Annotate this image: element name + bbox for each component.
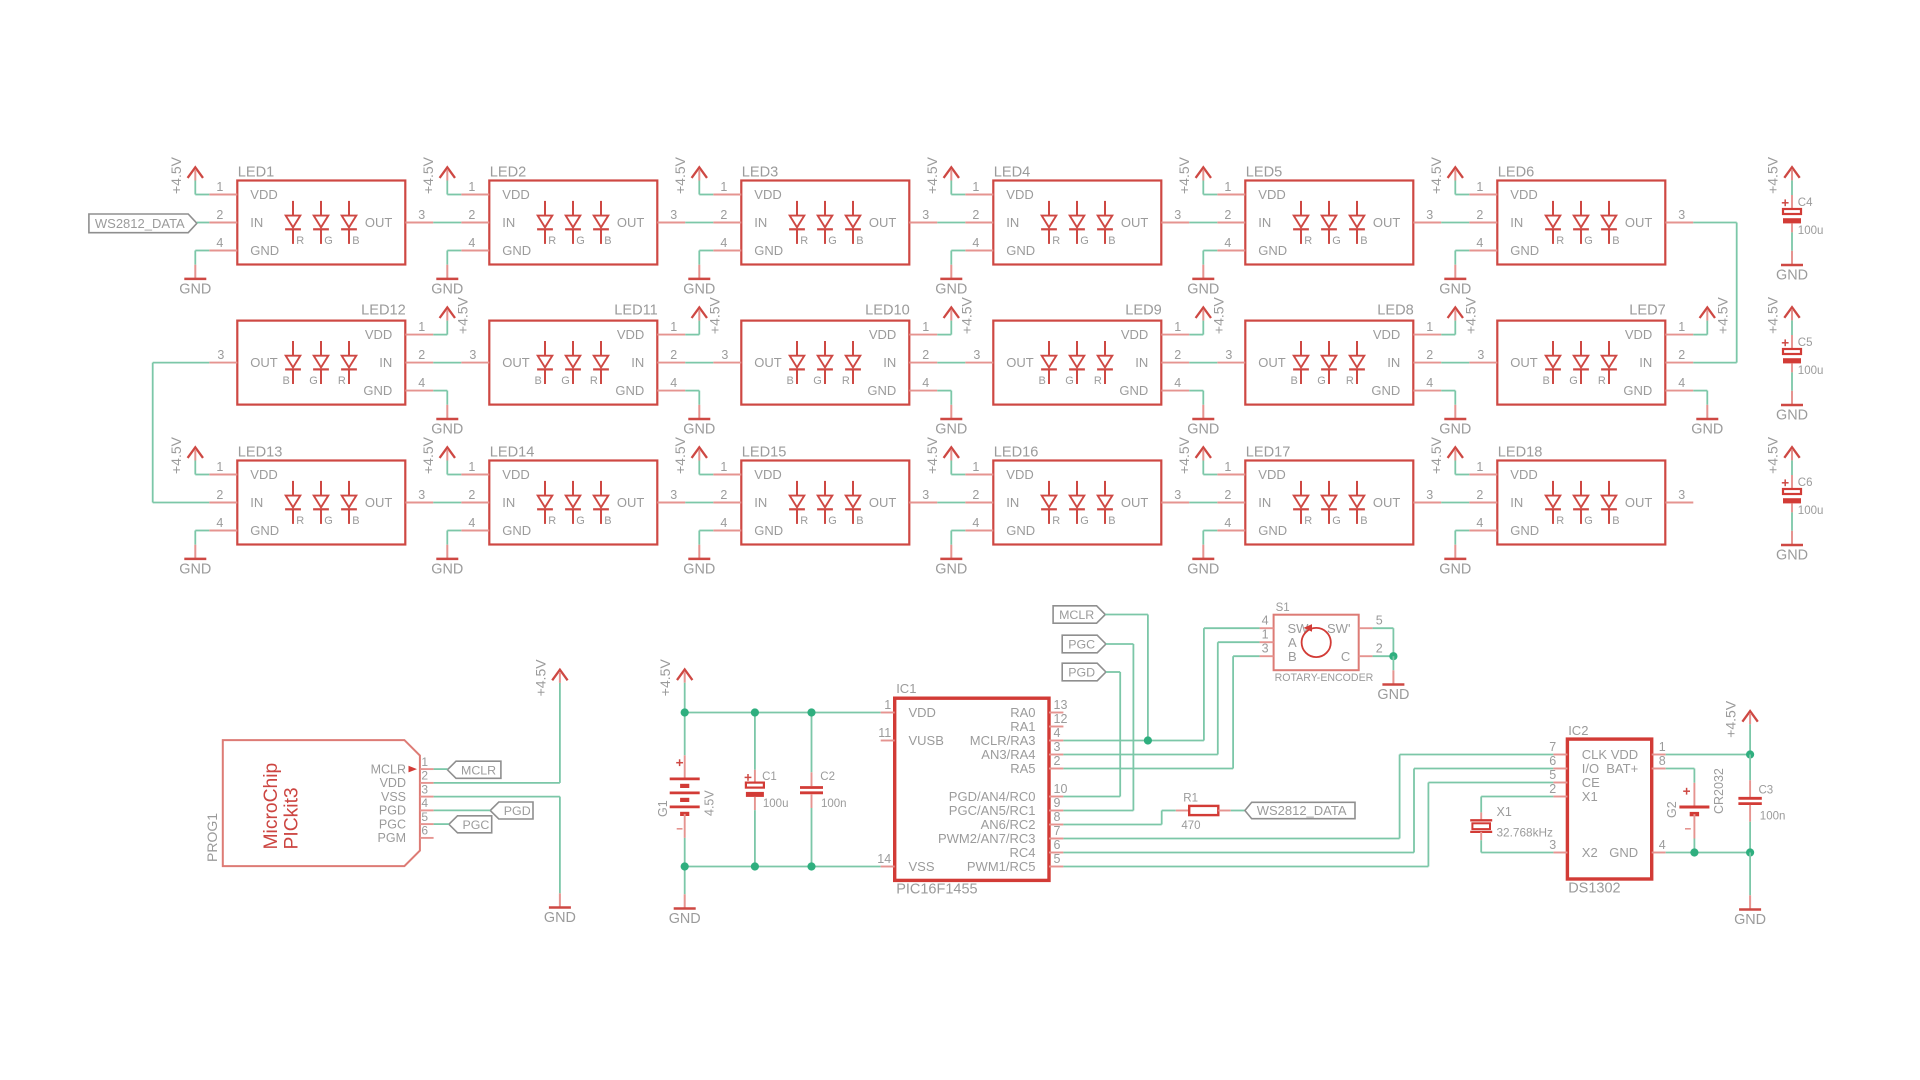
svg-text:B: B bbox=[282, 375, 289, 387]
svg-text:R: R bbox=[1304, 515, 1312, 527]
svg-text:+4.5V: +4.5V bbox=[706, 296, 722, 334]
svg-text:MCLR: MCLR bbox=[461, 763, 496, 777]
svg-text:4: 4 bbox=[1174, 376, 1181, 390]
svg-text:3: 3 bbox=[1678, 488, 1685, 502]
svg-text:IN: IN bbox=[502, 215, 515, 230]
svg-text:B: B bbox=[352, 515, 359, 527]
svg-text:VUSB: VUSB bbox=[909, 733, 944, 748]
svg-text:LED8: LED8 bbox=[1377, 303, 1414, 319]
svg-text:VDD: VDD bbox=[754, 467, 781, 482]
svg-text:B: B bbox=[1288, 649, 1297, 664]
svg-text:GND: GND bbox=[1439, 562, 1471, 578]
svg-text:GND: GND bbox=[754, 243, 783, 258]
svg-text:PGD: PGD bbox=[379, 804, 406, 818]
svg-text:IN: IN bbox=[502, 495, 515, 510]
svg-text:5: 5 bbox=[1376, 614, 1383, 628]
svg-text:LED13: LED13 bbox=[238, 445, 283, 461]
svg-text:4: 4 bbox=[972, 516, 979, 530]
svg-text:2: 2 bbox=[1549, 782, 1556, 796]
svg-text:VDD: VDD bbox=[1121, 327, 1148, 342]
svg-text:C2: C2 bbox=[820, 771, 835, 783]
svg-text:PGC: PGC bbox=[1068, 638, 1095, 652]
svg-text:+4.5V: +4.5V bbox=[454, 296, 470, 334]
svg-text:VDD: VDD bbox=[1258, 187, 1285, 202]
svg-text:13: 13 bbox=[1054, 698, 1068, 712]
svg-text:+4.5V: +4.5V bbox=[924, 436, 940, 474]
svg-text:B: B bbox=[786, 375, 793, 387]
svg-text:VSS: VSS bbox=[909, 859, 935, 874]
svg-text:3: 3 bbox=[418, 488, 425, 502]
svg-text:3: 3 bbox=[1549, 838, 1556, 852]
svg-text:3: 3 bbox=[670, 208, 677, 222]
svg-text:VDD: VDD bbox=[869, 327, 896, 342]
svg-text:4: 4 bbox=[1426, 376, 1433, 390]
svg-text:+4.5V: +4.5V bbox=[1210, 296, 1226, 334]
svg-text:OUT: OUT bbox=[250, 355, 277, 370]
svg-text:4: 4 bbox=[1659, 838, 1666, 852]
svg-text:B: B bbox=[1038, 375, 1045, 387]
svg-text:GND: GND bbox=[683, 422, 715, 438]
svg-text:GND: GND bbox=[1439, 282, 1471, 298]
svg-text:CLK: CLK bbox=[1582, 747, 1608, 762]
svg-text:B: B bbox=[856, 235, 863, 247]
svg-text:R: R bbox=[1346, 375, 1354, 387]
svg-text:GND: GND bbox=[363, 383, 392, 398]
svg-text:G: G bbox=[1584, 235, 1593, 247]
svg-text:+4.5V: +4.5V bbox=[672, 436, 688, 474]
svg-text:1: 1 bbox=[216, 180, 223, 194]
svg-text:PICkit3: PICkit3 bbox=[282, 787, 303, 849]
svg-text:G: G bbox=[1080, 515, 1089, 527]
svg-text:1: 1 bbox=[468, 180, 475, 194]
svg-text:1: 1 bbox=[1426, 320, 1433, 334]
svg-text:1: 1 bbox=[884, 698, 891, 712]
svg-text:GND: GND bbox=[1187, 422, 1219, 438]
svg-text:GND: GND bbox=[1187, 562, 1219, 578]
svg-text:C: C bbox=[1341, 649, 1350, 664]
svg-text:LED15: LED15 bbox=[742, 445, 787, 461]
svg-text:IN: IN bbox=[250, 215, 263, 230]
svg-text:G: G bbox=[576, 235, 585, 247]
svg-text:MicroChip: MicroChip bbox=[261, 763, 282, 850]
svg-text:9: 9 bbox=[1054, 796, 1061, 810]
svg-text:+4.5V: +4.5V bbox=[532, 659, 548, 697]
svg-text:4: 4 bbox=[468, 236, 475, 250]
svg-text:4: 4 bbox=[421, 796, 428, 810]
svg-text:VDD: VDD bbox=[1625, 327, 1652, 342]
svg-text:+4.5V: +4.5V bbox=[1765, 436, 1781, 474]
svg-text:3: 3 bbox=[418, 208, 425, 222]
svg-text:2: 2 bbox=[670, 348, 677, 362]
svg-text:B: B bbox=[352, 235, 359, 247]
svg-text:6: 6 bbox=[1054, 838, 1061, 852]
svg-text:GND: GND bbox=[431, 422, 463, 438]
svg-text:IN: IN bbox=[1006, 495, 1019, 510]
svg-text:4: 4 bbox=[1224, 516, 1231, 530]
svg-text:2: 2 bbox=[418, 348, 425, 362]
svg-text:1: 1 bbox=[1224, 460, 1231, 474]
svg-text:3: 3 bbox=[922, 488, 929, 502]
svg-text:VSS: VSS bbox=[381, 790, 406, 804]
svg-text:IN: IN bbox=[631, 355, 644, 370]
svg-text:RA5: RA5 bbox=[1010, 761, 1035, 776]
svg-text:IN: IN bbox=[1639, 355, 1652, 370]
svg-text:100n: 100n bbox=[821, 798, 847, 810]
svg-text:R: R bbox=[296, 235, 304, 247]
svg-text:GND: GND bbox=[1258, 243, 1287, 258]
svg-text:ROTARY-ENCODER: ROTARY-ENCODER bbox=[1275, 672, 1374, 684]
svg-text:GND: GND bbox=[935, 562, 967, 578]
svg-text:X1: X1 bbox=[1497, 805, 1512, 819]
svg-text:+4.5V: +4.5V bbox=[1714, 296, 1730, 334]
svg-text:1: 1 bbox=[972, 180, 979, 194]
svg-text:GND: GND bbox=[1006, 243, 1035, 258]
svg-text:R: R bbox=[800, 235, 808, 247]
svg-text:OUT: OUT bbox=[617, 495, 645, 510]
svg-text:X2: X2 bbox=[1582, 845, 1598, 860]
svg-text:R: R bbox=[1052, 235, 1060, 247]
svg-text:LED4: LED4 bbox=[994, 165, 1031, 181]
svg-text:GND: GND bbox=[1187, 282, 1219, 298]
svg-text:GND: GND bbox=[1258, 523, 1287, 538]
svg-text:G: G bbox=[1065, 375, 1074, 387]
svg-text:R: R bbox=[338, 375, 346, 387]
svg-text:G: G bbox=[1332, 235, 1341, 247]
svg-text:32.768kHz: 32.768kHz bbox=[1497, 826, 1553, 840]
svg-text:OUT: OUT bbox=[754, 355, 782, 370]
svg-text:+4.5V: +4.5V bbox=[1176, 156, 1192, 194]
svg-text:LED11: LED11 bbox=[614, 303, 658, 319]
svg-text:SW': SW' bbox=[1327, 621, 1350, 636]
svg-text:100u: 100u bbox=[1798, 365, 1824, 377]
svg-text:3: 3 bbox=[1426, 208, 1433, 222]
svg-text:R: R bbox=[1094, 375, 1102, 387]
svg-text:S1: S1 bbox=[1276, 602, 1290, 614]
svg-text:PGD/AN4/RC0: PGD/AN4/RC0 bbox=[949, 789, 1036, 804]
svg-text:IC2: IC2 bbox=[1568, 723, 1588, 738]
svg-text:GND: GND bbox=[1371, 383, 1400, 398]
svg-text:1: 1 bbox=[1224, 180, 1231, 194]
svg-text:1: 1 bbox=[1678, 320, 1685, 334]
svg-text:G2: G2 bbox=[1665, 801, 1679, 818]
svg-text:2: 2 bbox=[1054, 754, 1061, 768]
svg-text:IN: IN bbox=[754, 495, 767, 510]
svg-text:B: B bbox=[604, 515, 611, 527]
svg-text:+4.5V: +4.5V bbox=[1428, 436, 1444, 474]
svg-text:R: R bbox=[590, 375, 598, 387]
svg-text:GND: GND bbox=[1609, 845, 1638, 860]
svg-text:VDD: VDD bbox=[1006, 187, 1033, 202]
svg-text:B: B bbox=[1360, 515, 1367, 527]
svg-text:4.5V: 4.5V bbox=[703, 790, 717, 816]
svg-text:R: R bbox=[1304, 235, 1312, 247]
svg-text:4: 4 bbox=[720, 236, 727, 250]
svg-text:LED18: LED18 bbox=[1498, 445, 1543, 461]
svg-text:MCLR: MCLR bbox=[1059, 608, 1094, 622]
svg-text:LED5: LED5 bbox=[1246, 165, 1283, 181]
svg-text:1: 1 bbox=[418, 320, 425, 334]
svg-text:2: 2 bbox=[1476, 208, 1483, 222]
svg-text:C4: C4 bbox=[1798, 197, 1813, 209]
svg-text:GND: GND bbox=[250, 243, 279, 258]
svg-text:GND: GND bbox=[935, 282, 967, 298]
svg-text:AN3/RA4: AN3/RA4 bbox=[981, 747, 1035, 762]
svg-text:PGD: PGD bbox=[1068, 666, 1095, 680]
svg-text:R: R bbox=[1052, 515, 1060, 527]
svg-text:4: 4 bbox=[670, 376, 677, 390]
svg-text:OUT: OUT bbox=[1625, 215, 1653, 230]
svg-text:I/O: I/O bbox=[1582, 761, 1599, 776]
svg-text:PWM1/RC5: PWM1/RC5 bbox=[967, 859, 1036, 874]
svg-text:5: 5 bbox=[421, 810, 428, 824]
svg-text:3: 3 bbox=[217, 348, 224, 362]
svg-text:8: 8 bbox=[1659, 754, 1666, 768]
svg-text:GND: GND bbox=[935, 422, 967, 438]
svg-text:LED7: LED7 bbox=[1629, 303, 1666, 319]
svg-text:VDD: VDD bbox=[1510, 467, 1537, 482]
svg-text:2: 2 bbox=[1174, 348, 1181, 362]
svg-text:GND: GND bbox=[683, 282, 715, 298]
svg-text:VDD: VDD bbox=[754, 187, 781, 202]
svg-text:LED6: LED6 bbox=[1498, 165, 1535, 181]
svg-text:2: 2 bbox=[468, 488, 475, 502]
svg-text:4: 4 bbox=[418, 376, 425, 390]
svg-text:+4.5V: +4.5V bbox=[1723, 700, 1739, 738]
svg-text:R: R bbox=[296, 515, 304, 527]
svg-text:B: B bbox=[534, 375, 541, 387]
svg-text:B: B bbox=[856, 515, 863, 527]
svg-text:3: 3 bbox=[973, 348, 980, 362]
svg-text:4: 4 bbox=[1054, 726, 1061, 740]
svg-text:11: 11 bbox=[878, 726, 891, 740]
svg-text:+4.5V: +4.5V bbox=[420, 156, 436, 194]
svg-text:DS1302: DS1302 bbox=[1568, 880, 1620, 896]
svg-text:OUT: OUT bbox=[502, 355, 530, 370]
svg-text:BAT+: BAT+ bbox=[1606, 761, 1638, 776]
svg-text:OUT: OUT bbox=[1258, 355, 1286, 370]
svg-text:1: 1 bbox=[216, 460, 223, 474]
svg-text:3: 3 bbox=[421, 782, 428, 796]
svg-text:3: 3 bbox=[1174, 208, 1181, 222]
svg-text:5: 5 bbox=[1549, 768, 1556, 782]
svg-text:3: 3 bbox=[469, 348, 476, 362]
svg-text:GND: GND bbox=[1776, 408, 1808, 424]
svg-text:100u: 100u bbox=[1798, 225, 1824, 237]
svg-text:100n: 100n bbox=[1760, 810, 1786, 822]
svg-text:2: 2 bbox=[216, 488, 223, 502]
svg-text:RA0: RA0 bbox=[1010, 705, 1035, 720]
svg-text:GND: GND bbox=[1691, 422, 1723, 438]
svg-text:PGM: PGM bbox=[378, 831, 406, 845]
svg-text:OUT: OUT bbox=[1373, 215, 1401, 230]
svg-text:CR2032: CR2032 bbox=[1712, 768, 1726, 814]
svg-text:CE: CE bbox=[1582, 775, 1600, 790]
svg-text:4: 4 bbox=[216, 516, 223, 530]
svg-text:R: R bbox=[1556, 235, 1564, 247]
svg-text:R: R bbox=[1556, 515, 1564, 527]
svg-text:G1: G1 bbox=[656, 800, 670, 817]
svg-text:+4.5V: +4.5V bbox=[168, 436, 184, 474]
svg-text:8: 8 bbox=[1054, 810, 1061, 824]
svg-text:IN: IN bbox=[1510, 495, 1523, 510]
svg-text:G: G bbox=[1317, 375, 1326, 387]
svg-text:LED10: LED10 bbox=[865, 303, 910, 319]
svg-text:B: B bbox=[1612, 235, 1619, 247]
svg-text:+4.5V: +4.5V bbox=[1428, 156, 1444, 194]
svg-text:R: R bbox=[548, 235, 556, 247]
svg-text:G: G bbox=[576, 515, 585, 527]
svg-text:G: G bbox=[1080, 235, 1089, 247]
svg-text:GND: GND bbox=[1006, 523, 1035, 538]
svg-text:1: 1 bbox=[720, 180, 727, 194]
svg-text:3: 3 bbox=[1054, 740, 1061, 754]
svg-text:2: 2 bbox=[468, 208, 475, 222]
svg-text:R: R bbox=[800, 515, 808, 527]
svg-text:RA1: RA1 bbox=[1010, 719, 1035, 734]
svg-text:VDD: VDD bbox=[1611, 747, 1638, 762]
svg-text:GND: GND bbox=[544, 910, 576, 926]
svg-text:C3: C3 bbox=[1759, 784, 1774, 796]
svg-text:+4.5V: +4.5V bbox=[958, 296, 974, 334]
svg-text:C1: C1 bbox=[762, 771, 777, 783]
svg-text:100u: 100u bbox=[1798, 505, 1824, 517]
svg-text:OUT: OUT bbox=[869, 215, 897, 230]
svg-text:R: R bbox=[842, 375, 850, 387]
svg-text:1: 1 bbox=[670, 320, 677, 334]
svg-text:GND: GND bbox=[1623, 383, 1652, 398]
svg-text:GND: GND bbox=[683, 562, 715, 578]
svg-text:IN: IN bbox=[1510, 215, 1523, 230]
svg-text:+4.5V: +4.5V bbox=[1462, 296, 1478, 334]
svg-text:IN: IN bbox=[1258, 495, 1271, 510]
svg-text:GND: GND bbox=[1377, 687, 1409, 703]
svg-text:2: 2 bbox=[1426, 348, 1433, 362]
svg-text:VDD: VDD bbox=[617, 327, 644, 342]
svg-text:VDD: VDD bbox=[909, 705, 936, 720]
svg-text:PGC: PGC bbox=[379, 817, 406, 831]
svg-text:A: A bbox=[1288, 635, 1297, 650]
svg-text:2: 2 bbox=[1678, 348, 1685, 362]
svg-text:4: 4 bbox=[1476, 516, 1483, 530]
svg-text:IN: IN bbox=[1258, 215, 1271, 230]
svg-text:4: 4 bbox=[1476, 236, 1483, 250]
svg-text:PWM2/AN7/RC3: PWM2/AN7/RC3 bbox=[938, 831, 1036, 846]
svg-text:VDD: VDD bbox=[502, 187, 529, 202]
svg-text:+4.5V: +4.5V bbox=[924, 156, 940, 194]
svg-text:VDD: VDD bbox=[250, 187, 277, 202]
svg-text:G: G bbox=[828, 515, 837, 527]
svg-text:3: 3 bbox=[721, 348, 728, 362]
svg-text:6: 6 bbox=[421, 824, 428, 838]
svg-text:B: B bbox=[1108, 515, 1115, 527]
svg-text:IN: IN bbox=[754, 215, 767, 230]
svg-text:GND: GND bbox=[502, 243, 531, 258]
svg-text:OUT: OUT bbox=[869, 495, 897, 510]
svg-text:+4.5V: +4.5V bbox=[672, 156, 688, 194]
svg-text:4: 4 bbox=[922, 376, 929, 390]
svg-text:B: B bbox=[1360, 235, 1367, 247]
svg-text:+4.5V: +4.5V bbox=[168, 156, 184, 194]
svg-text:1: 1 bbox=[421, 755, 428, 769]
svg-text:+4.5V: +4.5V bbox=[1765, 296, 1781, 334]
svg-text:10: 10 bbox=[1054, 782, 1068, 796]
svg-text:3: 3 bbox=[1262, 642, 1269, 656]
svg-text:2: 2 bbox=[1376, 642, 1383, 656]
svg-text:OUT: OUT bbox=[1121, 495, 1149, 510]
svg-text:GND: GND bbox=[431, 282, 463, 298]
svg-text:IN: IN bbox=[1006, 215, 1019, 230]
svg-text:GND: GND bbox=[179, 282, 211, 298]
svg-text:PGD: PGD bbox=[504, 804, 531, 818]
svg-text:AN6/RC2: AN6/RC2 bbox=[981, 817, 1036, 832]
svg-text:G: G bbox=[1332, 515, 1341, 527]
svg-text:2: 2 bbox=[972, 488, 979, 502]
svg-text:3: 3 bbox=[670, 488, 677, 502]
svg-text:3: 3 bbox=[1426, 488, 1433, 502]
svg-text:14: 14 bbox=[877, 852, 891, 866]
svg-text:G: G bbox=[1584, 515, 1593, 527]
svg-text:7: 7 bbox=[1549, 740, 1556, 754]
svg-text:1: 1 bbox=[1262, 628, 1269, 642]
svg-text:3: 3 bbox=[1174, 488, 1181, 502]
svg-text:LED14: LED14 bbox=[490, 445, 535, 461]
svg-text:G: G bbox=[324, 515, 333, 527]
svg-text:2: 2 bbox=[720, 208, 727, 222]
svg-text:OUT: OUT bbox=[365, 215, 393, 230]
svg-text:R: R bbox=[548, 515, 556, 527]
svg-text:OUT: OUT bbox=[1006, 355, 1034, 370]
svg-text:OUT: OUT bbox=[1373, 495, 1401, 510]
svg-text:LED2: LED2 bbox=[490, 165, 527, 181]
svg-text:R: R bbox=[1598, 375, 1606, 387]
svg-text:GND: GND bbox=[179, 562, 211, 578]
svg-text:6: 6 bbox=[1549, 754, 1556, 768]
svg-text:2: 2 bbox=[1476, 488, 1483, 502]
svg-text:2: 2 bbox=[216, 208, 223, 222]
svg-text:IN: IN bbox=[883, 355, 896, 370]
svg-text:1: 1 bbox=[1476, 460, 1483, 474]
svg-text:IN: IN bbox=[379, 355, 392, 370]
svg-text:LED16: LED16 bbox=[994, 445, 1039, 461]
svg-text:+4.5V: +4.5V bbox=[1176, 436, 1192, 474]
svg-text:4: 4 bbox=[1224, 236, 1231, 250]
svg-text:MCLR/RA3: MCLR/RA3 bbox=[970, 733, 1036, 748]
svg-text:VDD: VDD bbox=[1006, 467, 1033, 482]
svg-text:G: G bbox=[324, 235, 333, 247]
svg-text:3: 3 bbox=[1678, 208, 1685, 222]
svg-text:1: 1 bbox=[972, 460, 979, 474]
svg-text:B: B bbox=[1542, 375, 1549, 387]
svg-text:1: 1 bbox=[720, 460, 727, 474]
svg-text:GND: GND bbox=[669, 911, 701, 927]
svg-text:1: 1 bbox=[1659, 740, 1666, 754]
svg-text:12: 12 bbox=[1054, 712, 1068, 726]
svg-text:GND: GND bbox=[1776, 268, 1808, 284]
svg-text:RC4: RC4 bbox=[1009, 845, 1035, 860]
svg-text:G: G bbox=[828, 235, 837, 247]
svg-text:+4.5V: +4.5V bbox=[1765, 156, 1781, 194]
svg-text:4: 4 bbox=[1678, 376, 1685, 390]
svg-text:VDD: VDD bbox=[250, 467, 277, 482]
svg-text:G: G bbox=[309, 375, 318, 387]
svg-text:B: B bbox=[604, 235, 611, 247]
svg-text:GND: GND bbox=[1510, 523, 1539, 538]
svg-text:G: G bbox=[561, 375, 570, 387]
svg-text:GND: GND bbox=[1439, 422, 1471, 438]
svg-text:GND: GND bbox=[502, 523, 531, 538]
svg-text:+4.5V: +4.5V bbox=[657, 659, 673, 697]
svg-text:R1: R1 bbox=[1183, 792, 1198, 804]
